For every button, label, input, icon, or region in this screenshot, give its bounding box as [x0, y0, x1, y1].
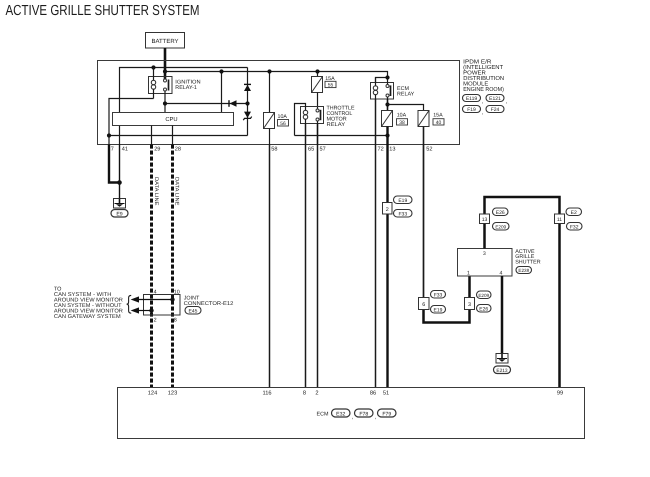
wire: 58 to ECM 116: [269, 145, 271, 388]
wire: throttle switch to pin 57: [317, 124, 319, 145]
wire: fuse 55 to throttle relay switch: [317, 93, 319, 109]
svg-text:86: 86: [370, 391, 376, 397]
svg-text:F32: F32: [570, 224, 579, 230]
svg-text:8: 8: [174, 318, 177, 324]
diode D2 (left): [230, 100, 237, 107]
svg-text:6: 6: [422, 302, 425, 308]
svg-text:99: 99: [557, 391, 563, 397]
svg-text:52: 52: [426, 147, 432, 153]
svg-text:F33: F33: [434, 292, 443, 298]
svg-text:RELAY: RELAY: [327, 122, 346, 128]
svg-text:E45: E45: [189, 309, 198, 315]
wire: fuse 38 to pin 13: [386, 127, 388, 145]
ECM pin labels: [148, 391, 563, 397]
connector oval F24: [486, 106, 504, 113]
svg-text:F78: F78: [359, 411, 368, 417]
IPDM E/R label: [463, 58, 504, 93]
pin labels IPDM bottom: [111, 147, 433, 153]
svg-text:41: 41: [122, 147, 128, 153]
node: ECM relay top junction: [385, 75, 389, 79]
ground E213: [496, 354, 508, 364]
connector 11 (E2/F32): [555, 214, 565, 224]
wire: pin 41 ground wire: [119, 145, 121, 199]
relay: ECM relay: [371, 78, 394, 100]
svg-text:E121: E121: [489, 96, 501, 102]
label: TO CAN SYSTEM block: [54, 287, 123, 321]
relay: throttle control motor relay: [301, 107, 324, 124]
wire: diode chain vertical: [247, 68, 249, 136]
wire: throttle coil to pin 65: [305, 124, 307, 145]
ground E9: [114, 199, 126, 209]
svg-text:40: 40: [436, 120, 442, 126]
svg-text:F19: F19: [467, 107, 476, 113]
svg-text:2: 2: [154, 318, 157, 324]
connector 6 (F33/E19): [419, 298, 430, 310]
svg-text:SHUTTER: SHUTTER: [515, 260, 541, 266]
svg-text:29: 29: [154, 147, 160, 153]
svg-text:RELAY-1: RELAY-1: [175, 85, 197, 91]
svg-text:F79: F79: [382, 411, 391, 417]
wire: AGS pin 3 loop to ECM 99: [485, 197, 560, 388]
svg-text:55: 55: [328, 83, 334, 89]
wire: feed to CPU: [221, 72, 223, 113]
svg-text:CAN GATEWAY SYSTEM: CAN GATEWAY SYSTEM: [54, 314, 121, 320]
wire: 72 to ECM 86: [375, 145, 377, 388]
wire: bottom bus segment B: [295, 135, 388, 137]
wire: bottom bus segment A: [109, 135, 248, 137]
wire: bus A upper: [120, 68, 248, 145]
wire: ECM relay switch down: [387, 99, 389, 111]
node: joint connector dots: [170, 297, 174, 301]
wire: bus B upper: [165, 72, 388, 78]
wire: relay coil to pin 7: [109, 99, 154, 145]
svg-text:10: 10: [174, 289, 180, 295]
svg-text:1: 1: [467, 270, 470, 276]
wire: 13 to ECM 51: [386, 145, 388, 388]
svg-text:F33: F33: [398, 211, 407, 217]
svg-text:7: 7: [111, 147, 114, 153]
fuse 10A 56: [264, 113, 275, 129]
connector oval E121: [486, 95, 504, 102]
svg-text:58: 58: [271, 147, 277, 153]
svg-text:13: 13: [482, 217, 488, 223]
diode D3 zener (down): [244, 112, 251, 118]
svg-text:13: 13: [389, 147, 395, 153]
svg-text:123: 123: [168, 391, 178, 397]
svg-text:DATA LINE: DATA LINE: [174, 177, 180, 206]
svg-text:E26: E26: [479, 306, 488, 312]
brace: [127, 295, 132, 313]
node: ground junction: [117, 180, 122, 185]
battery B1: [146, 33, 185, 49]
wire: AGS pin 4 to ground: [501, 276, 504, 354]
fuse 15A 40: [418, 111, 429, 127]
wire: CAN line pin 29 (dashed): [150, 145, 153, 388]
wire: to fuse 40: [388, 105, 424, 111]
svg-text:E32: E32: [336, 411, 345, 417]
svg-text:E209: E209: [478, 293, 489, 298]
connector oval E45: [185, 307, 201, 315]
svg-text:E209: E209: [495, 224, 506, 229]
svg-text:4: 4: [154, 289, 157, 295]
wire: connector 6 to AGS pin 1: [424, 276, 470, 323]
joint connector E12: [144, 295, 181, 316]
svg-text:BATTERY: BATTERY: [151, 38, 178, 45]
svg-text:RELAY: RELAY: [397, 91, 415, 97]
fuse 15A 55: [312, 77, 323, 93]
fuse 10A 38: [382, 111, 393, 127]
wire: fuse 56 to pin 58: [269, 129, 271, 145]
wire: CAN arrow 2: [138, 310, 152, 312]
wire: ECM relay jumper: [376, 78, 388, 83]
connector oval F19: [463, 106, 481, 113]
node: switch-bottom junction: [163, 101, 167, 105]
svg-text:11: 11: [557, 217, 562, 223]
svg-text:E9: E9: [116, 211, 122, 217]
node: junction to fuse 40: [385, 102, 389, 106]
diode D1 (up): [244, 85, 251, 91]
svg-text:15A: 15A: [433, 112, 443, 118]
connector 3 (E209/E26): [465, 298, 475, 310]
svg-text:E19: E19: [398, 198, 407, 204]
svg-text:51: 51: [383, 391, 389, 397]
svg-text:2: 2: [386, 207, 389, 213]
svg-text:57: 57: [320, 147, 326, 153]
CPU box: [113, 113, 234, 126]
wire: diode horizontal: [165, 103, 248, 105]
svg-text:10A: 10A: [397, 112, 407, 118]
wire: CPU pin 29 stub: [151, 126, 153, 145]
ECM box: [118, 388, 585, 439]
wire: CAN arrow 1: [138, 299, 173, 301]
node: pin7 bus junction: [107, 133, 111, 137]
relay: ignition relay-1: [149, 68, 173, 113]
connector oval E238: [516, 267, 532, 274]
svg-text:ACTIVE GRILLE SHUTTER SYSTEM: ACTIVE GRILLE SHUTTER SYSTEM: [6, 3, 200, 19]
node: bus junction dots: [151, 65, 319, 73]
node: bus B to pin13 junction: [385, 133, 389, 137]
svg-text:E238: E238: [518, 268, 529, 273]
svg-text:CPU: CPU: [165, 116, 177, 123]
wire: 57 to ECM 2: [317, 145, 319, 388]
svg-text:38: 38: [399, 120, 405, 126]
svg-text:F24: F24: [491, 107, 500, 113]
wire battery to IPDM: [164, 48, 167, 79]
wire: 65 to ECM 8: [305, 145, 307, 388]
svg-text:124: 124: [148, 391, 158, 397]
wire: 52 to connector 6: [423, 145, 425, 298]
wire: CPU pin 28 stub: [172, 126, 174, 145]
IPDM E/R box: [98, 61, 460, 145]
node: diode junction: [245, 101, 249, 105]
svg-text:DATA LINE: DATA LINE: [153, 177, 159, 206]
connector oval F78: [355, 409, 374, 417]
svg-text:ECM: ECM: [317, 411, 329, 417]
svg-text:ENGINE ROOM): ENGINE ROOM): [463, 86, 504, 93]
svg-text:72: 72: [378, 147, 384, 153]
svg-text:E213: E213: [496, 368, 508, 374]
svg-text:4: 4: [500, 270, 503, 276]
svg-text:E2: E2: [571, 210, 577, 216]
wire: throttle relay coil left loop: [295, 104, 306, 136]
connector oval E32: [332, 409, 351, 417]
wire: feed to fuse 55: [317, 72, 319, 77]
svg-text:8: 8: [303, 391, 306, 397]
svg-text:E26: E26: [496, 210, 505, 216]
svg-text:3: 3: [468, 302, 471, 308]
wire: ECM relay coil to pin 72: [375, 99, 377, 145]
svg-text:E119: E119: [466, 96, 478, 102]
svg-text:E19: E19: [434, 307, 443, 313]
connector 13 (E26/E209): [480, 214, 490, 224]
svg-text:65: 65: [308, 147, 314, 153]
connector oval E119: [463, 95, 481, 102]
wire: pin 7 ground wire: [109, 145, 120, 183]
wire: feed to fuse 56: [269, 72, 271, 113]
svg-text:28: 28: [175, 147, 181, 153]
connector oval F79: [378, 409, 397, 417]
svg-text:56: 56: [280, 121, 286, 127]
wire: CAN line pin 28 (dashed): [171, 145, 174, 388]
connector 2 (E19/F33): [383, 203, 393, 215]
wire: fuse 40 to pin 52: [423, 127, 425, 145]
active grille shutter box: [458, 249, 513, 277]
svg-text:3: 3: [483, 251, 486, 257]
svg-text:116: 116: [262, 391, 271, 397]
svg-text:2: 2: [315, 391, 318, 397]
